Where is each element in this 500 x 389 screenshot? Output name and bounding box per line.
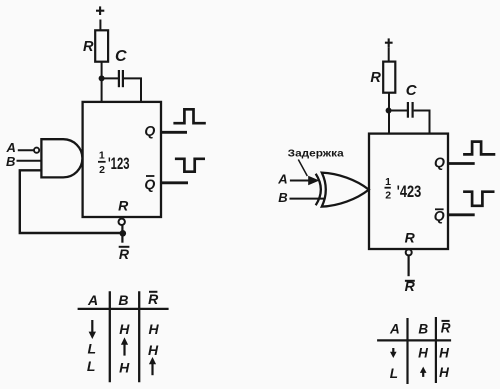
junction dot on R net (left) (120, 230, 127, 237)
svg-text:H: H (418, 346, 428, 361)
extra delay input arc of G2 (316, 174, 321, 205)
inverter bubble on A input (34, 148, 39, 153)
wire supply to R1 (99, 20, 101, 31)
wire Q output (right) (449, 162, 475, 165)
wire input A (left) (18, 149, 34, 151)
svg-text:H: H (148, 342, 159, 358)
pin Qbar label (left) (144, 176, 155, 192)
label 1/2 '423 (385, 176, 422, 201)
wire Qbar output (left) (161, 181, 188, 184)
arrowhead on A input (delay input) (308, 176, 319, 185)
svg-text:L: L (390, 366, 398, 381)
svg-text:L: L (88, 340, 97, 356)
truth table left: horizontal rule (78, 308, 169, 310)
table cell row1 A: falling edge arrow (left) (89, 320, 96, 339)
junction dot (left R/C node) (99, 75, 105, 81)
power + supply (right circuit) (385, 38, 393, 47)
wire feedback R net to gate input (20, 170, 123, 233)
svg-text:B: B (118, 292, 128, 308)
wire R1 bottom to box top (101, 62, 103, 102)
wire node to capacitor C1 (102, 77, 118, 79)
wire R2 bottom to box top (388, 93, 390, 134)
table cell row2 B: rising edge arrow (right) (420, 367, 427, 377)
label 1/2 '123 (98, 150, 130, 177)
wire input B (left) (17, 160, 42, 162)
svg-text:2: 2 (99, 164, 105, 176)
IC U1 box 1/2 '123 (83, 102, 161, 217)
truth table left: vertical rule 2 (138, 291, 140, 382)
svg-text:1: 1 (99, 150, 105, 162)
resistor R (right) (383, 62, 395, 93)
wire Q output (left) (161, 131, 187, 134)
waveform negative pulse at Qbar (left) (175, 159, 205, 172)
node Rbar terminal label (right) (405, 278, 416, 294)
svg-text:1: 1 (385, 176, 391, 188)
svg-text:2: 2 (385, 189, 391, 201)
svg-text:H: H (119, 359, 130, 375)
waveform negative pulse at Qbar (right) (463, 192, 494, 206)
wire Qbar output (right) (449, 213, 475, 216)
wire C1 to box top (124, 78, 141, 102)
table cell row3 Rbar: rising edge arrow (left) (149, 357, 156, 375)
svg-text:A: A (389, 321, 400, 336)
svg-text:A: A (277, 171, 287, 186)
inverter bubble on R pin (right) (406, 249, 412, 255)
svg-text:Задержка: Задержка (288, 147, 344, 159)
capacitor C (right) (408, 102, 413, 118)
junction dot (right R/C node) (386, 108, 392, 114)
IC U2 box 1/2 '423 (369, 134, 448, 249)
svg-text:A: A (6, 140, 16, 155)
wire input A (right) (290, 180, 309, 182)
svg-text:B: B (418, 321, 428, 336)
wire input B (right) (290, 198, 326, 200)
svg-text:H: H (119, 321, 130, 337)
table cell row1 A: falling edge arrow (right) (390, 348, 397, 358)
table header Rbar (right) (441, 320, 451, 335)
wire R pin down to Rbar terminal (121, 225, 123, 243)
svg-text:C: C (115, 48, 127, 65)
truth table left: vertical rule 1 (109, 291, 111, 382)
svg-text:'423: '423 (397, 182, 421, 201)
svg-text:Q: Q (144, 176, 155, 192)
svg-text:R: R (441, 320, 451, 335)
leader line from Zaderzhka to arrowhead (298, 160, 307, 177)
OR gate G2 (right input gate) (322, 173, 369, 207)
table cell row2 B: rising edge arrow (left) (121, 337, 128, 355)
wire R pin down to Rbar terminal (right) (408, 255, 410, 276)
inverter bubble on R pin (left) (119, 219, 125, 225)
svg-text:R: R (405, 230, 416, 246)
svg-text:A: A (87, 292, 98, 308)
truth table right: horizontal rule (377, 339, 451, 341)
capacitor C (left) (119, 70, 123, 87)
svg-text:Q: Q (144, 123, 155, 139)
AND gate G1 (left input gate) (41, 139, 82, 177)
svg-text:R: R (148, 291, 159, 307)
svg-text:B: B (278, 190, 287, 205)
svg-text:R: R (119, 246, 130, 262)
wire node to capacitor C2 (389, 110, 408, 112)
svg-text:R: R (405, 278, 416, 294)
svg-text:R: R (370, 70, 381, 86)
svg-text:R: R (83, 39, 94, 55)
svg-text:Q: Q (434, 154, 445, 170)
node Rbar terminal label (left) (119, 246, 130, 262)
svg-text:C: C (406, 82, 418, 99)
svg-text:H: H (149, 321, 160, 337)
svg-text:R: R (118, 198, 129, 214)
svg-text:L: L (87, 358, 96, 374)
waveform positive pulse at Q (right) (463, 142, 495, 155)
truth table right: vertical rule 1 (406, 318, 408, 384)
waveform positive pulse at Q (left) (173, 109, 205, 123)
svg-text:H: H (439, 365, 449, 380)
wire C2 to box top (414, 111, 430, 134)
svg-text:B: B (6, 154, 15, 169)
svg-text:H: H (439, 346, 449, 361)
table header Rbar (left) (148, 291, 159, 307)
wire supply to R2 (388, 47, 390, 61)
pin Qbar label (right) (434, 208, 445, 224)
power + supply (left circuit) (96, 6, 104, 15)
resistor R (left) (95, 30, 108, 61)
truth table right: vertical rule 2 (435, 317, 437, 383)
svg-text:'123: '123 (108, 154, 130, 173)
